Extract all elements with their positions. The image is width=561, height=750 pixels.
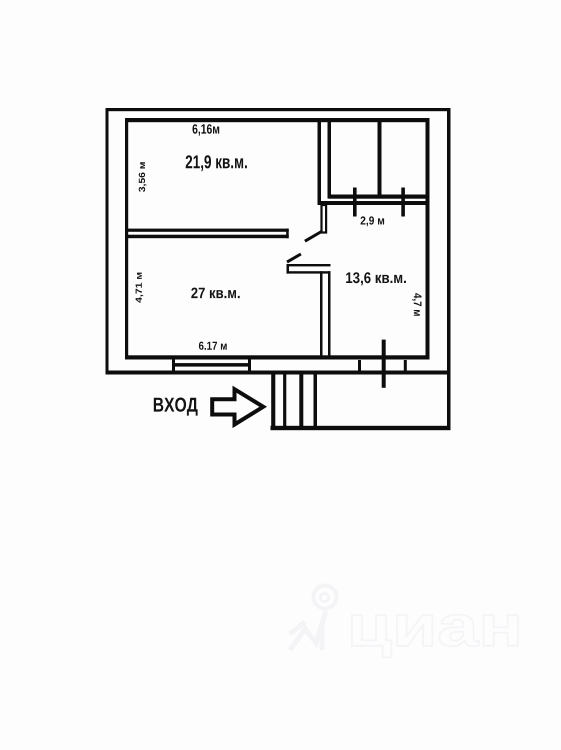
- room 13,6 left wall outer line: [320, 271, 323, 358]
- outer wall right line: [447, 108, 451, 430]
- entrance doorway left connector: [358, 360, 361, 371]
- porch step bar 4: [314, 375, 318, 428]
- door leaf upper diagonal: [305, 232, 322, 242]
- partition wall end cap: [286, 229, 289, 239]
- window under room 27 : right connector: [248, 358, 251, 372]
- inner wall top: [125, 118, 430, 122]
- balcony window tick left: [353, 188, 357, 217]
- label room 27: [191, 288, 239, 299]
- label dim 6.17m: [199, 342, 227, 350]
- label dim 3,56m: [139, 162, 147, 192]
- outer wall bottom line: [106, 371, 451, 375]
- watermark cian logo pin hole: [320, 593, 328, 601]
- balcony divider wall: [378, 122, 382, 199]
- outer wall left line: [106, 108, 109, 375]
- hallway wall bar left cap: [287, 264, 290, 274]
- entrance doorway right connector: [404, 360, 407, 371]
- inner wall bottom: [125, 355, 430, 359]
- window under room 27 : left connector: [172, 358, 175, 372]
- window under room 27 : glazing line: [172, 363, 251, 367]
- entrance arrow: [212, 389, 263, 424]
- porch step bar 1: [271, 375, 275, 428]
- label dim 2,9m: [361, 216, 385, 226]
- room 13,6 left wall inner line: [328, 271, 331, 358]
- inner wall right: [426, 118, 430, 360]
- inner wall left: [125, 118, 128, 360]
- outer wall top line: [106, 108, 451, 111]
- hallway wall horizontal bar top line: [287, 264, 331, 266]
- balcony left wall inner line: [328, 122, 332, 199]
- balcony window lower glazing line: [321, 201, 430, 205]
- label room 21,9: [186, 155, 247, 171]
- wall segment below balcony: [322, 205, 327, 233]
- door leaf lower diagonal: [287, 254, 301, 262]
- partition wall lower line: [128, 235, 289, 239]
- label vhod: [154, 398, 198, 416]
- porch step bar 3: [299, 375, 303, 428]
- watermark cian logo legs: [290, 611, 326, 650]
- watermark cian logo pin head: [314, 586, 337, 609]
- hallway wall horizontal bar bottom line: [287, 271, 331, 273]
- label dim 6,16m: [193, 124, 220, 136]
- label dim 4,7m: [412, 293, 421, 316]
- label dim 4,71m: [136, 273, 144, 303]
- balcony window upper glazing line: [329, 195, 430, 199]
- balcony window tick right: [401, 188, 405, 217]
- watermark cian wordmark: [352, 615, 518, 658]
- entrance door tick: [382, 340, 386, 388]
- porch step bar 2: [283, 375, 286, 428]
- label room 13,6: [346, 272, 406, 285]
- porch bottom line: [271, 426, 451, 430]
- balcony left wall outer line: [318, 121, 322, 205]
- partition wall between rooms 21,9 and 27 : upper line: [128, 229, 289, 232]
